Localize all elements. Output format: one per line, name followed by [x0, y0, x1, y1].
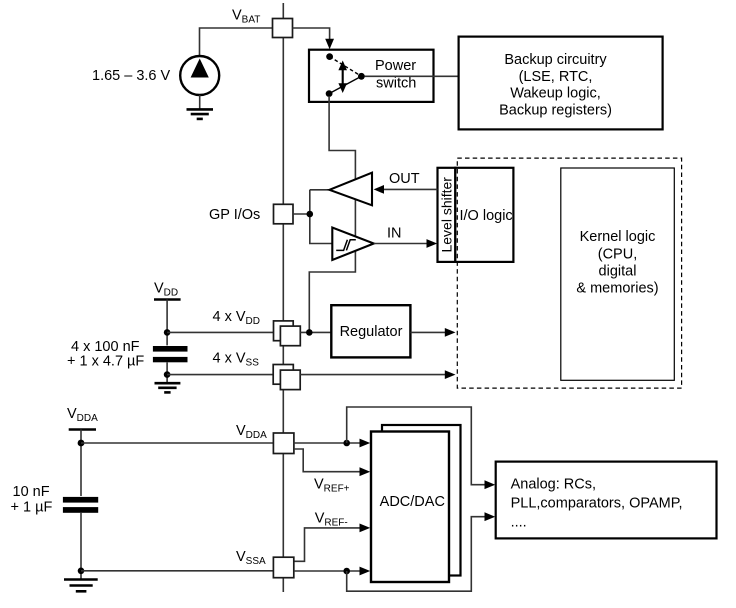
node VDD dot — [164, 329, 171, 336]
wire regulator to kernel — [410, 328, 455, 337]
switch symbol (SPDT) — [326, 53, 365, 97]
wire power switch to backup circuitry — [365, 75, 459, 77]
wire VDD bar to cap — [166, 300, 168, 346]
pin 4 x VSS (double square) — [273, 365, 300, 390]
level shifter box — [438, 168, 456, 262]
kernel logic inner box — [561, 168, 675, 380]
ground (VDD) — [155, 383, 181, 392]
svg-text:VDDA: VDDA — [236, 423, 267, 441]
wire VDDA to analog box (top path) — [347, 407, 496, 489]
ADC/DAC back box — [382, 425, 461, 576]
svg-text:VREF+: VREF+ — [314, 476, 350, 494]
ADC/DAC front box — [371, 432, 449, 583]
wire VDD dot to pin — [167, 331, 281, 333]
svg-text:VBAT: VBAT — [232, 8, 260, 26]
node VSS dot — [164, 371, 171, 378]
wire VSSA to analog box (bottom path) — [347, 512, 496, 591]
svg-text:4 x VDD: 4 x VDD — [213, 309, 261, 327]
svg-text:1.65 – 3.6 V: 1.65 – 3.6 V — [92, 68, 171, 84]
svg-text:4 x VSS: 4 x VSS — [213, 351, 260, 369]
svg-text:VDDA: VDDA — [67, 406, 98, 424]
svg-text:ADC/DAC: ADC/DAC — [380, 494, 445, 510]
wire VDDA dot to pin — [81, 442, 273, 444]
ground (VSSA) — [64, 580, 98, 592]
svg-text:Regulator: Regulator — [340, 324, 403, 340]
output buffer triangle — [330, 173, 373, 206]
wire VREF- — [294, 524, 370, 562]
wire: battery to VBAT pin — [200, 28, 273, 57]
wire VSSA pin to ADC — [294, 567, 370, 576]
wire OUT with arrow — [374, 185, 438, 194]
svg-text:OUT: OUT — [389, 171, 420, 187]
I/O logic box — [455, 168, 513, 262]
svg-text:+ 1 x 4.7 µF: + 1 x 4.7 µF — [67, 353, 144, 369]
label capacitor values — [67, 339, 144, 369]
node regulator dot — [306, 329, 313, 336]
input Schmitt trigger triangle — [332, 228, 374, 261]
pin 4 x VDD (double square) — [274, 321, 301, 346]
analog box — [496, 462, 717, 539]
wire VDD pin to regulator — [300, 331, 331, 333]
pin GP I/Os — [274, 204, 294, 224]
svg-text:(LSE, RTC,: (LSE, RTC, — [519, 69, 593, 85]
svg-text:VSSA: VSSA — [236, 549, 266, 567]
svg-text:Wakeup logic,: Wakeup logic, — [510, 86, 601, 102]
backup circuitry box — [459, 37, 663, 130]
svg-text:PLL,comparators, OPAMP,: PLL,comparators, OPAMP, — [511, 496, 683, 512]
wire VSS dot to pin — [167, 374, 281, 376]
capacitor 10 nF + 1 uF — [63, 497, 98, 579]
svg-text:Power: Power — [375, 58, 416, 74]
wire IN with arrow — [374, 239, 437, 248]
svg-text:Backup circuitry: Backup circuitry — [504, 52, 607, 68]
svg-text:(CPU,: (CPU, — [598, 247, 637, 263]
current source 1.65-3.6 V — [180, 56, 219, 109]
wire: main supply rail — [282, 3, 284, 592]
svg-text:IN: IN — [387, 226, 402, 242]
VDDA supply bar — [69, 428, 96, 431]
node ADC VDDA dot — [343, 440, 350, 447]
wire GP pin to buffers — [293, 190, 332, 244]
node VSSA dot — [78, 568, 85, 575]
svg-text:digital: digital — [599, 264, 637, 280]
node VDDA dot — [78, 440, 85, 447]
wire VREF+ — [294, 449, 370, 476]
svg-text:switch: switch — [376, 76, 416, 92]
svg-text:10 nF: 10 nF — [13, 484, 50, 500]
svg-text:Level shifter: Level shifter — [438, 177, 454, 253]
wire VDDA pin to ADC — [293, 439, 370, 448]
node: GP dot — [307, 211, 314, 218]
wire power switch to output buffer supply — [309, 96, 355, 332]
label capacitor values (analog) — [11, 484, 53, 515]
wire VDDA bar to cap — [80, 430, 82, 497]
regulator box — [331, 305, 410, 357]
pin VSSA — [273, 557, 293, 578]
svg-text:VDD: VDD — [154, 280, 178, 298]
pin VBAT — [273, 19, 293, 38]
VDD supply bar — [154, 298, 181, 301]
svg-text:+ 1 µF: + 1 µF — [11, 499, 53, 515]
kernel logic dashed box — [457, 158, 681, 388]
svg-text:VREF-: VREF- — [315, 511, 348, 529]
wire VSS pin to kernel — [300, 370, 455, 379]
wire VBAT pin to power switch (with down arrow) — [293, 28, 335, 49]
node ADC VSSA dot — [343, 568, 350, 575]
capacitor 4 x 100 nF + 1 x 4.7 uF — [153, 346, 188, 383]
ground (battery) — [187, 109, 214, 119]
svg-text:GP I/Os: GP I/Os — [209, 207, 260, 223]
svg-text:Backup registers): Backup registers) — [499, 103, 612, 119]
svg-text:I/O logic: I/O logic — [460, 208, 513, 224]
svg-text:Kernel logic: Kernel logic — [580, 229, 656, 245]
svg-text:Analog: RCs,: Analog: RCs, — [511, 477, 596, 493]
svg-text:& memories): & memories) — [576, 281, 658, 297]
wire VSSA dot to pin — [81, 570, 274, 572]
power switch box — [309, 50, 434, 102]
svg-text:....: .... — [511, 515, 527, 531]
pin VDDA — [273, 433, 294, 454]
